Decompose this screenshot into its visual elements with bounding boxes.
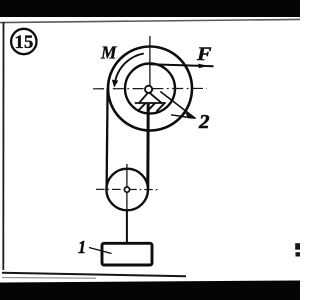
pin circle at pulley 2 axle (145, 86, 152, 93)
force F rope line (150, 64, 214, 66)
scan black band bottom (0, 281, 300, 300)
movable pulley axle dot (124, 187, 129, 192)
task number badge circle 15 (11, 29, 36, 54)
scan speck right edge (295, 243, 300, 250)
svg-text:1: 1 (78, 237, 86, 257)
frame left line (2, 22, 4, 270)
block 1 rectangle (102, 243, 152, 265)
leader arrowhead near label 2 (185, 112, 196, 119)
movable pulley vertical centerline (126, 164, 128, 214)
pin support hatching (138, 103, 165, 111)
leader line from pulley to label 2 (160, 92, 195, 119)
pulley 2 vertical centerline (149, 36, 151, 86)
pin support triangle (139, 92, 161, 103)
pulley 2 horizontal centerline (93, 87, 207, 89)
pulley 2 inner circle (125, 64, 175, 114)
frame top line (0, 19, 300, 22)
svg-text:2: 2 (198, 111, 210, 133)
leader line from label 1 to block (89, 248, 112, 254)
pulley 2 outer circle (108, 47, 192, 131)
frame bottom line faint echo (2, 277, 96, 280)
rope left side (107, 88, 108, 190)
moment M arrowhead (112, 80, 118, 88)
force F arrowhead (198, 64, 208, 69)
rope right side to axle (146, 104, 149, 190)
svg-text:F: F (196, 44, 212, 65)
movable pulley horizontal centerline (96, 188, 158, 190)
moment M arc arrow (115, 54, 144, 85)
rope to block (126, 210, 128, 244)
scan black band top (0, 0, 300, 17)
svg-text:M: M (100, 43, 117, 63)
svg-text:15: 15 (14, 32, 33, 53)
movable pulley circle (106, 169, 148, 211)
frame bottom line (2, 273, 186, 276)
scan speck right edge lower (296, 252, 301, 256)
leader second line to label 2 (171, 115, 189, 118)
pin support base line (135, 102, 166, 104)
